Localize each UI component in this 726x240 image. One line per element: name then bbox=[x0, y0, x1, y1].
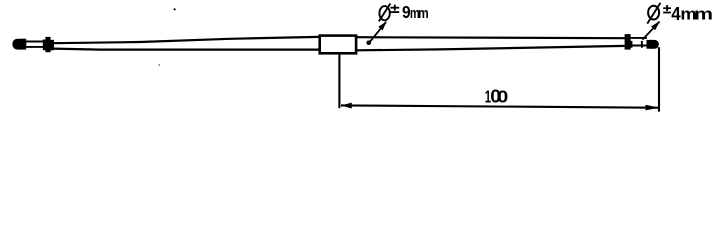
svg-text:0: 0 bbox=[497, 87, 508, 107]
svg-text:m: m bbox=[418, 5, 429, 21]
svg-text:4: 4 bbox=[671, 3, 681, 24]
svg-text:m: m bbox=[694, 6, 713, 24]
